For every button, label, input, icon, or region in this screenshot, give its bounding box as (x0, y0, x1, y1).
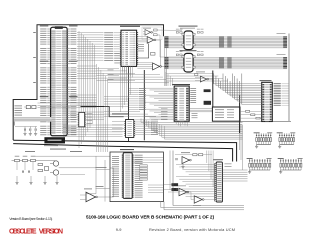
svg-text:Revision 2 Board, version with: Revision 2 Board, version with Motorola … (149, 227, 235, 232)
svg-text:9-9: 9-9 (116, 227, 122, 232)
svg-text:Version B Board (see Section 1: Version B Board (see Section 1.13) (9, 217, 52, 221)
svg-text:5100-160 LOGIC BOARD VER B SCH: 5100-160 LOGIC BOARD VER B SCHEMATIC (PA… (86, 215, 214, 220)
svg-text:OBSOLETE: OBSOLETE (9, 228, 37, 235)
svg-text:VERSION: VERSION (39, 228, 63, 235)
